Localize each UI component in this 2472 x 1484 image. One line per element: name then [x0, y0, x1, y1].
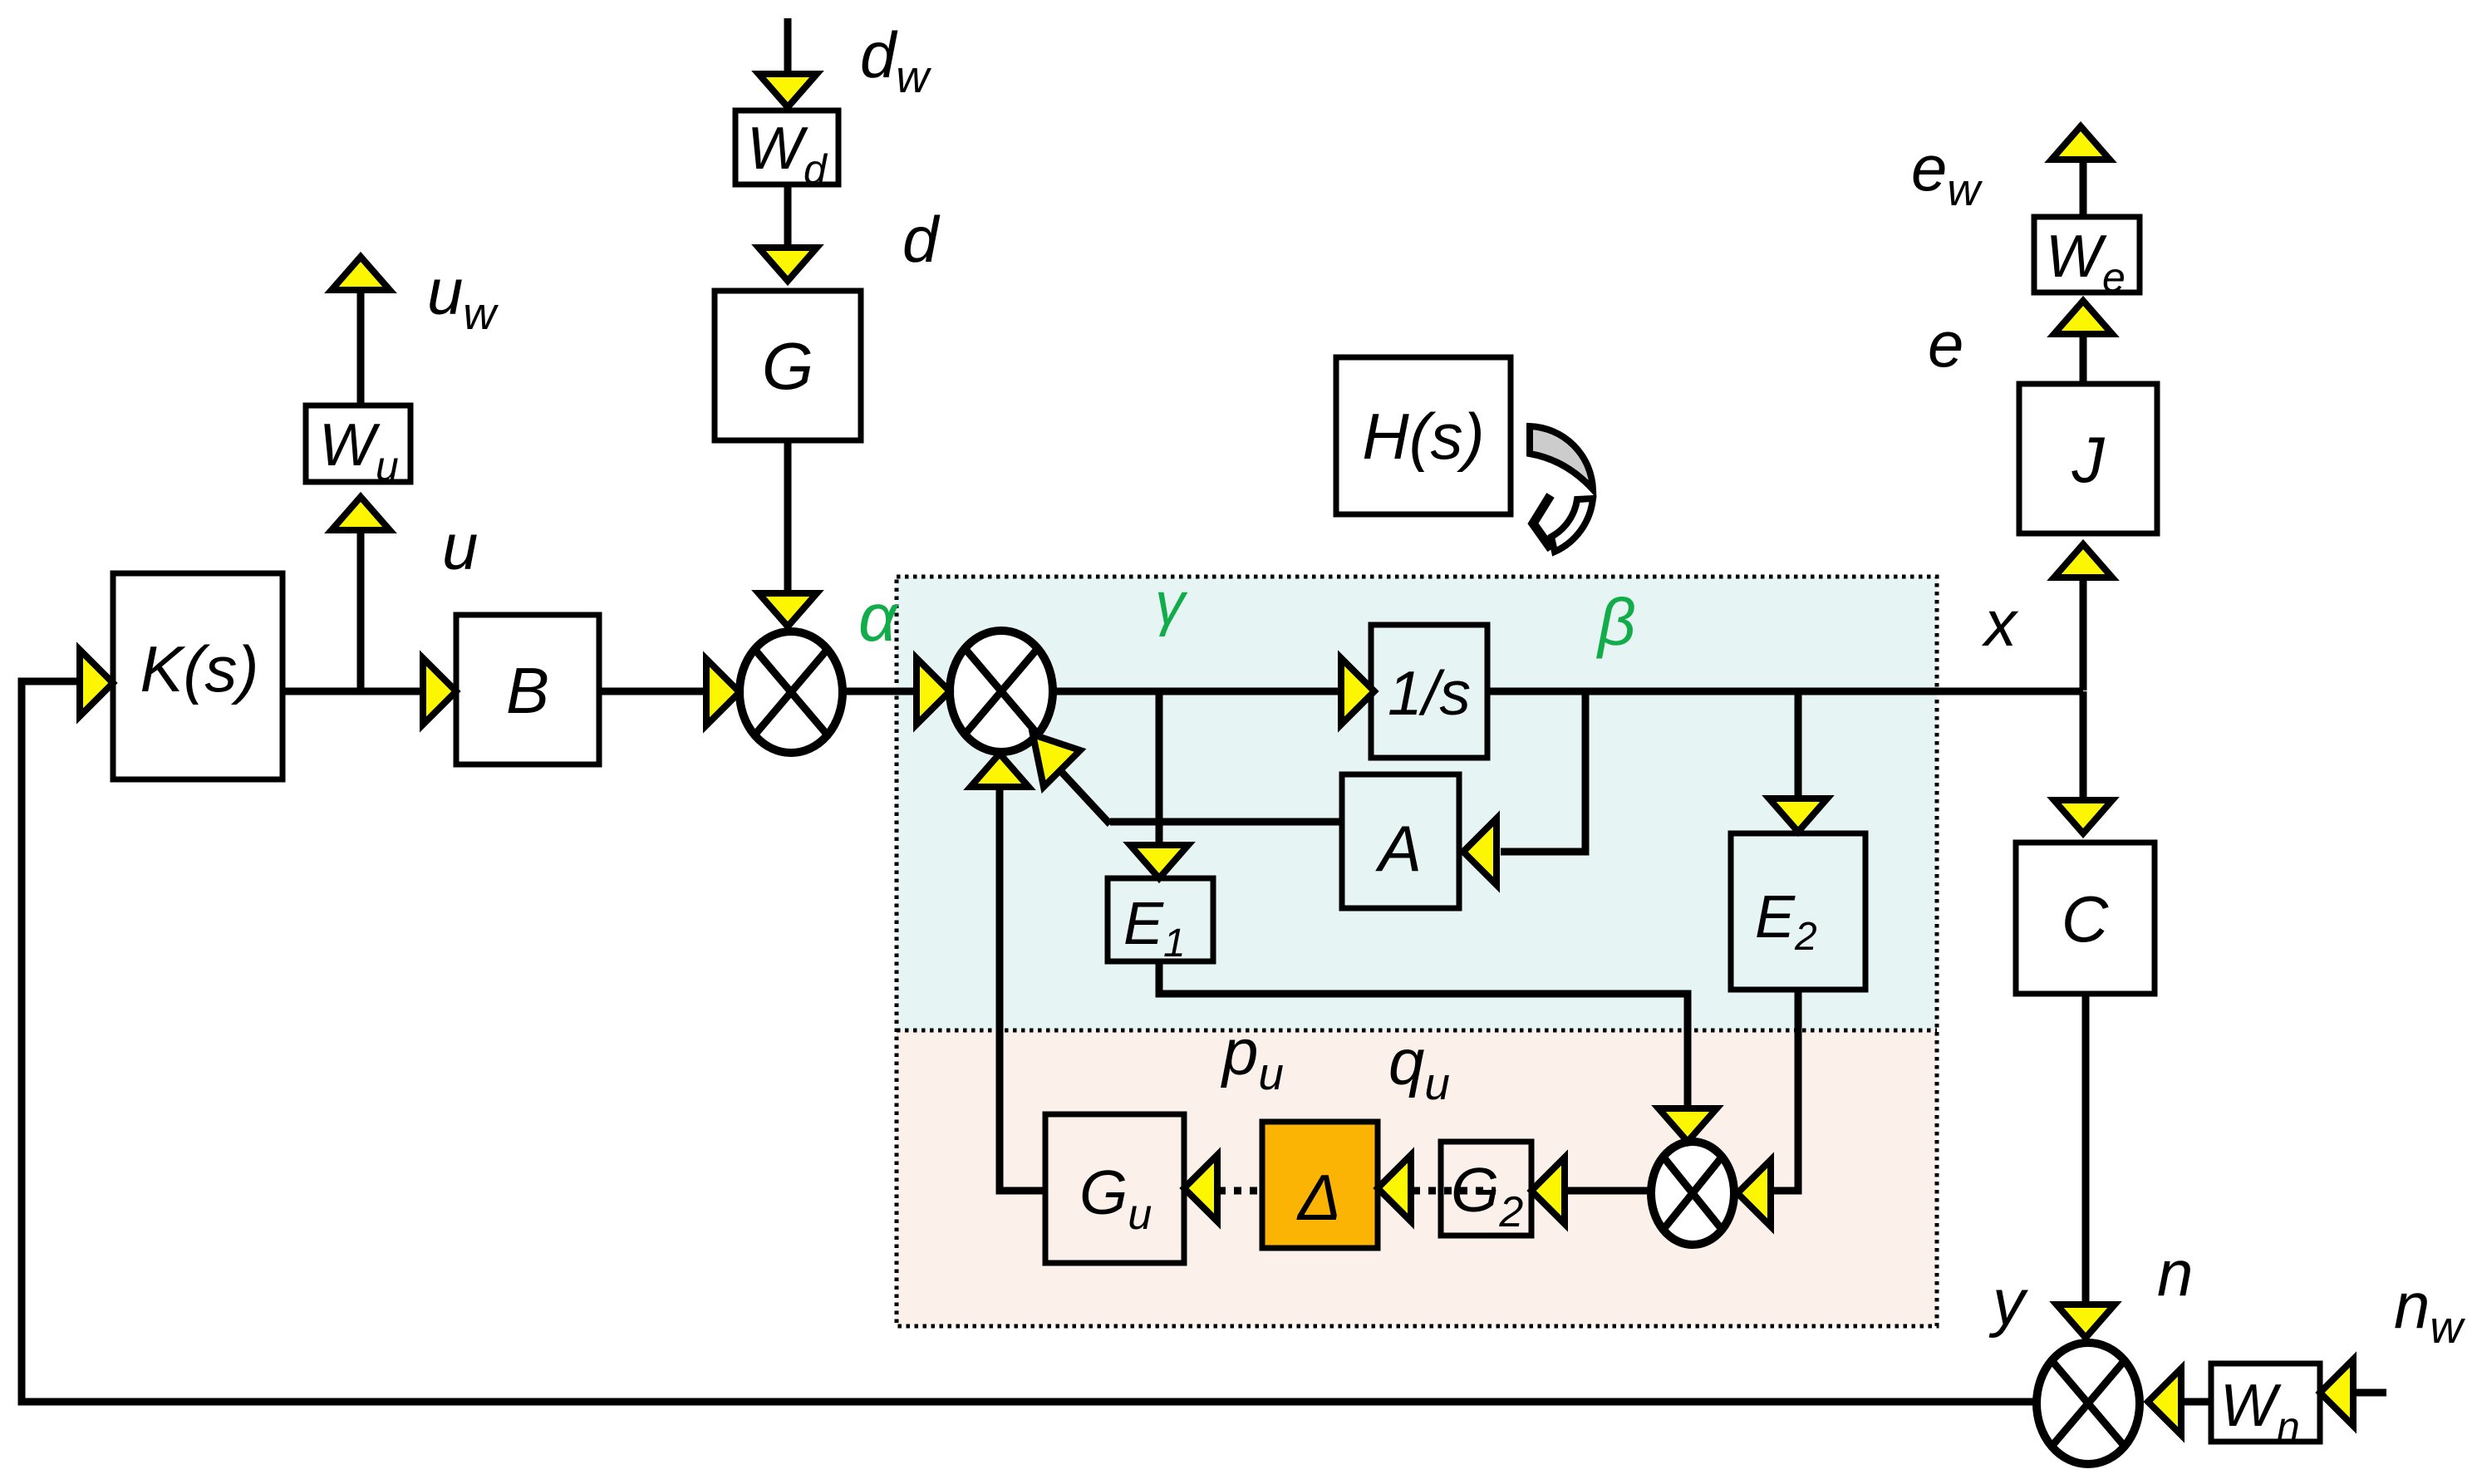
svg-text:e: e	[1928, 307, 1963, 381]
svg-text:A: A	[1375, 812, 1422, 885]
svg-text:G: G	[762, 329, 813, 403]
svg-text:H(s): H(s)	[1362, 400, 1484, 473]
svg-text:K(s): K(s)	[140, 632, 259, 705]
svg-text:Δ: Δ	[1296, 1161, 1341, 1234]
svg-text:y: y	[1988, 1265, 2028, 1339]
svg-text:1/s: 1/s	[1388, 658, 1471, 728]
svg-text:α: α	[858, 580, 899, 656]
svg-text:β: β	[1596, 585, 1636, 659]
svg-text:d: d	[902, 203, 941, 276]
svg-text:B: B	[506, 654, 549, 727]
svg-text:n: n	[2157, 1236, 2193, 1310]
svg-text:γ: γ	[1155, 571, 1188, 637]
svg-text:u: u	[442, 510, 478, 583]
svg-text:C: C	[2062, 882, 2109, 956]
svg-text:J: J	[2071, 423, 2106, 496]
svg-text:x: x	[1981, 587, 2019, 660]
